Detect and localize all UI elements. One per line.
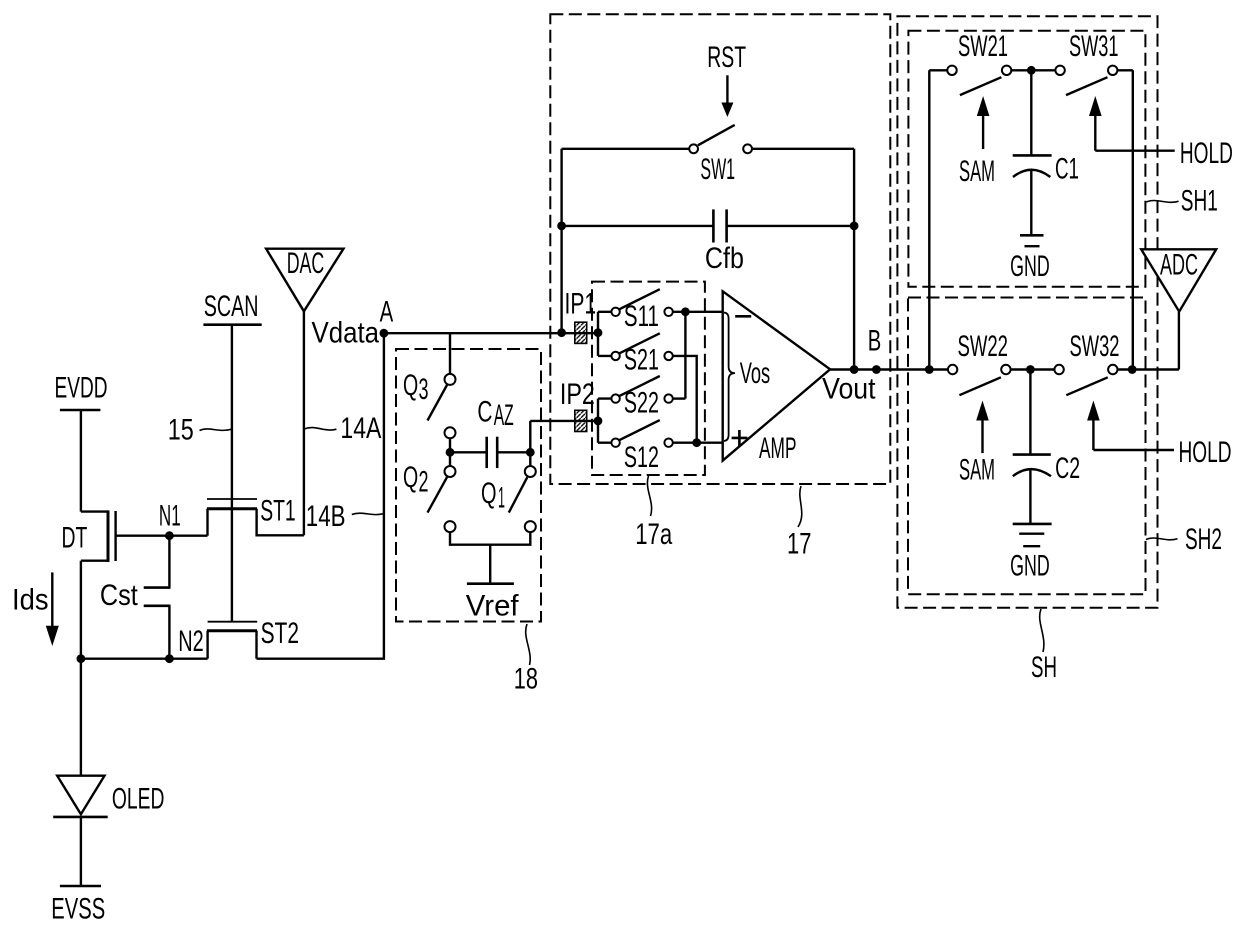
- capacitor Cst: [100, 579, 171, 612]
- svg-text:2: 2: [419, 466, 429, 499]
- svg-text:17a: 17a: [635, 518, 672, 551]
- op-amp ADC: [1141, 248, 1216, 311]
- wire S22 to S11 node: [673, 397, 686, 399]
- svg-text:OLED: OLED: [112, 782, 165, 815]
- svg-text:DAC: DAC: [287, 247, 325, 280]
- svg-text:SW1: SW1: [700, 153, 735, 186]
- svg-text:ST2: ST2: [261, 617, 299, 650]
- wire DT gate to node N1: [116, 535, 208, 537]
- svg-text:S12: S12: [624, 441, 659, 474]
- signal SCAN terminal: [203, 290, 261, 325]
- svg-text:Q: Q: [403, 369, 418, 402]
- power EVSS: [51, 886, 105, 925]
- wire SW32 to ADC: [1118, 312, 1179, 370]
- svg-text:SH2: SH2: [1185, 523, 1222, 556]
- input pad IP1: [565, 288, 597, 344]
- node N1: [159, 499, 181, 540]
- control arrow SAM 2: [959, 401, 995, 487]
- switch Q3: [403, 369, 456, 438]
- svg-text:C1: C1: [1055, 153, 1079, 186]
- svg-text:SW22: SW22: [958, 330, 1009, 363]
- svg-text:S11: S11: [624, 300, 659, 333]
- label SH2: [1146, 523, 1222, 556]
- svg-text:SH: SH: [1031, 651, 1057, 684]
- node CAZ left junction: [446, 448, 455, 457]
- svg-text:SAM: SAM: [959, 453, 995, 486]
- wire S12 to amp plus input: [673, 442, 723, 444]
- junction output feedback: [850, 365, 859, 374]
- wire Q2 Q1 to Vref: [450, 533, 530, 584]
- svg-text:S22: S22: [624, 387, 659, 420]
- svg-text:AZ: AZ: [494, 399, 514, 432]
- wire EVDD to DT drain: [80, 410, 82, 512]
- block 18 dashed box: [396, 349, 541, 622]
- svg-text:EVSS: EVSS: [51, 892, 105, 925]
- svg-text:B: B: [868, 325, 882, 358]
- junction C2 top: [1026, 365, 1035, 374]
- block SH1 dashed box: [908, 31, 1145, 287]
- wire SW21 to SW31: [1012, 69, 1055, 71]
- svg-text:C: C: [477, 396, 492, 429]
- svg-text:SH1: SH1: [1181, 184, 1218, 217]
- block 17 dashed box: [550, 14, 890, 484]
- label 14A: [304, 412, 381, 445]
- svg-text:HOLD: HOLD: [1179, 436, 1232, 469]
- label SH: [1031, 609, 1057, 684]
- wire ST2 to line 14B up to node A: [257, 333, 384, 659]
- switch Q2: [403, 452, 456, 532]
- wire S11 to amp minus input: [673, 311, 723, 313]
- wire SH1 left branch: [929, 70, 947, 369]
- wire S11 node down to S22: [684, 312, 686, 399]
- svg-text:15: 15: [168, 414, 194, 447]
- junction OLED anode node: [77, 654, 86, 663]
- junction feedback at input wire: [557, 328, 566, 337]
- svg-text:RST: RST: [707, 41, 746, 74]
- svg-text:Q: Q: [481, 477, 497, 510]
- wire DT source down to OLED junction: [80, 561, 82, 659]
- wire IP2 node to S22 S12: [598, 399, 612, 443]
- wire IP1 node to S11 S21: [598, 312, 612, 356]
- wire SW22 to SW32: [1011, 368, 1054, 370]
- switch SW31: [1055, 30, 1118, 95]
- capacitor Cfb: [562, 209, 855, 275]
- label 18: [514, 624, 538, 696]
- capacitor C2: [1013, 370, 1080, 524]
- capacitor CAZ: [450, 396, 530, 469]
- svg-text:Cst: Cst: [100, 579, 138, 612]
- wire CAZ right to IP2: [530, 421, 598, 452]
- junction SH1 tap: [925, 365, 934, 374]
- svg-text:SW32: SW32: [1070, 330, 1120, 363]
- svg-text:Ids: Ids: [12, 584, 49, 617]
- switch SW21: [947, 30, 1011, 95]
- svg-text:EVDD: EVDD: [55, 372, 108, 405]
- label 17: [787, 486, 811, 561]
- svg-text:SW21: SW21: [958, 30, 1008, 63]
- op-amp DAC: [266, 247, 343, 311]
- transistor DT: [62, 510, 116, 562]
- junction Cfb right: [850, 222, 859, 231]
- svg-text:Vos: Vos: [740, 357, 771, 390]
- wire Vout into SH2: [946, 368, 949, 370]
- svg-text:N2: N2: [178, 625, 204, 658]
- svg-text:SW31: SW31: [1069, 30, 1119, 63]
- transistor ST2: [207, 617, 299, 659]
- wire N1 to Cst top plate: [168, 536, 170, 588]
- switch S12: [611, 420, 672, 474]
- switch S21: [611, 333, 672, 376]
- svg-text:IP1: IP1: [565, 288, 597, 321]
- wire SW1 right vertical: [853, 149, 855, 370]
- svg-text:IP2: IP2: [560, 378, 595, 411]
- wire AMP output to SH: [830, 368, 947, 370]
- svg-text:C2: C2: [1055, 452, 1080, 485]
- svg-text:HOLD: HOLD: [1180, 137, 1233, 170]
- svg-text:SAM: SAM: [959, 155, 995, 188]
- label 17a: [635, 476, 672, 551]
- power EVDD: [55, 372, 108, 410]
- svg-text:Vref: Vref: [466, 589, 519, 622]
- svg-text:3: 3: [419, 373, 429, 406]
- junction IP2 node: [594, 417, 603, 426]
- control arrow SAM 1: [959, 96, 995, 188]
- diode OLED: [53, 659, 164, 817]
- block SH2 dashed box: [908, 298, 1146, 595]
- ground GND 1: [1010, 235, 1050, 283]
- junction SW32 right: [1128, 365, 1137, 374]
- svg-text:S21: S21: [624, 343, 659, 376]
- switch S11: [611, 289, 672, 333]
- wire SCAN line 15: [231, 325, 233, 622]
- node B: [822, 325, 881, 406]
- svg-text:A: A: [380, 296, 394, 329]
- junction S12 S21 node: [692, 438, 701, 447]
- block 17a dashed box: [592, 282, 705, 475]
- ground GND 2: [1010, 524, 1052, 583]
- switch Q1: [481, 452, 536, 532]
- wire OLED cathode to EVSS: [80, 817, 82, 886]
- wire DAC output 14A: [303, 311, 305, 535]
- svg-text:N1: N1: [159, 499, 181, 532]
- wire node A to switch Q3: [449, 333, 451, 373]
- svg-text:Q: Q: [403, 461, 418, 494]
- signal RST: [707, 41, 746, 117]
- control arrow HOLD 1: [1089, 96, 1233, 170]
- svg-text:DT: DT: [62, 521, 88, 554]
- wire S21 down to S12 node: [673, 356, 697, 443]
- switch S22: [611, 376, 672, 420]
- switch SW1: [562, 125, 855, 186]
- current arrow Ids: [12, 572, 59, 646]
- op-amp AMP: [723, 291, 830, 465]
- wire SW1 left vertical: [560, 149, 562, 333]
- junction C1 top: [1027, 66, 1036, 75]
- wire SW31 right branch down: [1118, 70, 1133, 369]
- capacitor C1: [1013, 70, 1079, 235]
- svg-text:SCAN: SCAN: [204, 290, 259, 323]
- wire Q3 to CAZ left node: [449, 439, 451, 452]
- svg-text:ADC: ADC: [1160, 248, 1198, 281]
- switch SW32: [1054, 330, 1119, 395]
- label 14B: [306, 500, 384, 533]
- node A: [312, 296, 394, 350]
- svg-text:Vout: Vout: [822, 373, 876, 406]
- svg-text:GND: GND: [1010, 550, 1050, 583]
- label SH1: [1147, 184, 1218, 217]
- junction IP1 node: [594, 328, 603, 337]
- terminal Vref: [466, 584, 519, 623]
- svg-text:GND: GND: [1010, 250, 1050, 283]
- input pad IP2: [560, 378, 595, 432]
- wire junction to N2: [81, 658, 208, 660]
- svg-text:AMP: AMP: [759, 432, 797, 465]
- node CAZ right junction: [526, 448, 535, 457]
- junction Cfb left: [557, 222, 566, 231]
- svg-text:17: 17: [787, 528, 811, 561]
- svg-text:14A: 14A: [340, 412, 381, 445]
- svg-text:14B: 14B: [306, 500, 346, 533]
- svg-text:1: 1: [498, 482, 505, 515]
- switch SW22: [948, 330, 1011, 395]
- transistor ST1: [207, 495, 304, 536]
- svg-text:Cfb: Cfb: [705, 242, 744, 275]
- node N2: [165, 625, 204, 663]
- label 15: [168, 414, 232, 447]
- junction S11 S22 node: [681, 307, 690, 316]
- svg-text:Vdata: Vdata: [312, 317, 380, 350]
- wire node A to IP1: [384, 332, 598, 334]
- control arrow HOLD 2: [1087, 401, 1231, 470]
- svg-text:ST1: ST1: [260, 495, 296, 528]
- svg-text:18: 18: [514, 663, 538, 696]
- wire Cst bottom plate to node N2: [168, 606, 170, 659]
- block SH dashed box: [897, 16, 1157, 608]
